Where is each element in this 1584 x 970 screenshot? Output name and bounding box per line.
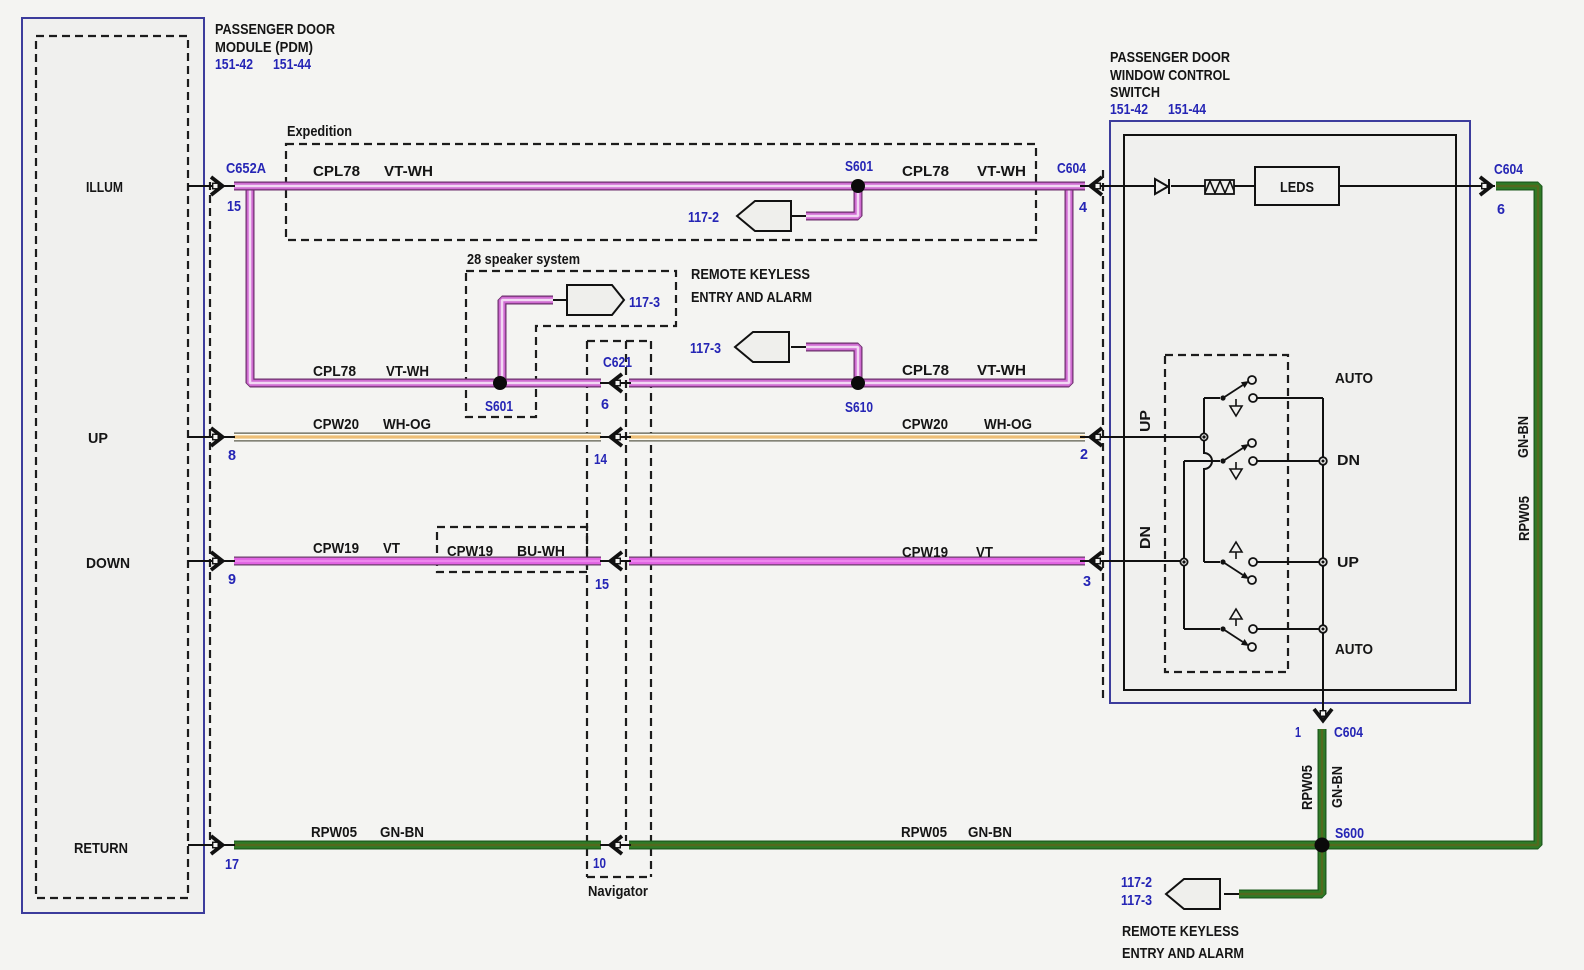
svg-text:RETURN: RETURN xyxy=(74,840,128,857)
svg-text:CPW20: CPW20 xyxy=(902,416,948,433)
svg-text:C604: C604 xyxy=(1057,160,1087,177)
svg-text:BU-WH: BU-WH xyxy=(517,543,565,560)
svg-text:WH-OG: WH-OG xyxy=(383,416,431,433)
svg-text:4: 4 xyxy=(1079,199,1088,216)
svg-text:151-44: 151-44 xyxy=(1168,101,1207,118)
svg-text:8: 8 xyxy=(228,447,236,464)
svg-text:GN-BN: GN-BN xyxy=(968,824,1012,841)
svg-text:CPL78: CPL78 xyxy=(313,163,360,180)
svg-text:117-3: 117-3 xyxy=(629,294,660,311)
svg-text:3: 3 xyxy=(1083,573,1091,590)
svg-text:VT: VT xyxy=(383,540,400,557)
svg-text:CPW19: CPW19 xyxy=(313,540,359,557)
svg-text:VT-WH: VT-WH xyxy=(384,163,433,180)
svg-text:GN-BN: GN-BN xyxy=(1515,416,1532,458)
svg-text:GN-BN: GN-BN xyxy=(1329,766,1346,808)
svg-text:UP: UP xyxy=(1137,410,1154,432)
svg-text:ILLUM: ILLUM xyxy=(86,179,123,196)
svg-text:14: 14 xyxy=(594,451,608,468)
svg-text:AUTO: AUTO xyxy=(1335,641,1373,658)
svg-text:CPW19: CPW19 xyxy=(902,544,948,561)
svg-text:15: 15 xyxy=(595,576,609,593)
svg-text:151-42: 151-42 xyxy=(215,56,253,73)
svg-text:S600: S600 xyxy=(1335,825,1364,842)
svg-text:28 speaker system: 28 speaker system xyxy=(467,251,580,268)
svg-text:15: 15 xyxy=(227,198,241,215)
svg-text:GN-BN: GN-BN xyxy=(380,824,424,841)
svg-text:151-44: 151-44 xyxy=(273,56,312,73)
svg-text:DN: DN xyxy=(1337,452,1360,469)
svg-text:WINDOW CONTROL: WINDOW CONTROL xyxy=(1110,67,1230,84)
svg-text:C604: C604 xyxy=(1334,724,1364,741)
svg-text:10: 10 xyxy=(593,855,606,872)
svg-text:17: 17 xyxy=(225,856,239,873)
svg-text:AUTO: AUTO xyxy=(1335,370,1373,387)
svg-text:SWITCH: SWITCH xyxy=(1110,84,1160,101)
svg-text:ENTRY AND ALARM: ENTRY AND ALARM xyxy=(691,289,812,306)
svg-text:RPW05: RPW05 xyxy=(1299,765,1316,810)
svg-text:WH-OG: WH-OG xyxy=(984,416,1032,433)
svg-text:REMOTE KEYLESS: REMOTE KEYLESS xyxy=(1122,923,1239,940)
svg-text:RPW05: RPW05 xyxy=(901,824,947,841)
svg-text:MODULE (PDM): MODULE (PDM) xyxy=(215,39,313,56)
svg-text:C652A: C652A xyxy=(226,160,266,177)
svg-text:UP: UP xyxy=(1337,554,1359,571)
svg-text:C604: C604 xyxy=(1494,161,1524,178)
svg-text:CPL78: CPL78 xyxy=(313,363,356,380)
svg-text:Expedition: Expedition xyxy=(287,123,352,140)
svg-text:CPL78: CPL78 xyxy=(902,362,949,379)
svg-text:117-2: 117-2 xyxy=(688,209,719,226)
svg-text:2: 2 xyxy=(1080,446,1088,463)
svg-text:VT-WH: VT-WH xyxy=(977,362,1026,379)
svg-text:117-3: 117-3 xyxy=(1121,892,1152,909)
svg-text:6: 6 xyxy=(601,396,609,413)
svg-text:C621: C621 xyxy=(603,354,632,371)
svg-text:RPW05: RPW05 xyxy=(1516,496,1533,541)
svg-text:UP: UP xyxy=(88,430,108,447)
svg-text:CPW20: CPW20 xyxy=(313,416,359,433)
svg-text:S601: S601 xyxy=(485,398,513,415)
svg-text:DN: DN xyxy=(1137,526,1154,549)
svg-text:CPL78: CPL78 xyxy=(902,163,949,180)
svg-text:117-3: 117-3 xyxy=(690,340,721,357)
svg-text:VT: VT xyxy=(976,544,993,561)
svg-text:Navigator: Navigator xyxy=(588,883,648,900)
svg-text:S610: S610 xyxy=(845,399,873,416)
svg-text:1: 1 xyxy=(1295,724,1301,741)
svg-text:6: 6 xyxy=(1497,201,1505,218)
svg-text:ENTRY AND ALARM: ENTRY AND ALARM xyxy=(1122,945,1244,962)
svg-text:9: 9 xyxy=(228,571,236,588)
svg-text:CPW19: CPW19 xyxy=(447,543,493,560)
svg-text:151-42: 151-42 xyxy=(1110,101,1148,118)
svg-text:REMOTE KEYLESS: REMOTE KEYLESS xyxy=(691,266,810,283)
svg-text:VT-WH: VT-WH xyxy=(386,363,429,380)
svg-text:DOWN: DOWN xyxy=(86,555,130,572)
svg-text:VT-WH: VT-WH xyxy=(977,163,1026,180)
svg-text:PASSENGER DOOR: PASSENGER DOOR xyxy=(215,21,335,38)
svg-text:RPW05: RPW05 xyxy=(311,824,357,841)
svg-text:117-2: 117-2 xyxy=(1121,874,1152,891)
svg-text:LEDS: LEDS xyxy=(1280,179,1314,196)
svg-text:S601: S601 xyxy=(845,158,873,175)
svg-text:PASSENGER DOOR: PASSENGER DOOR xyxy=(1110,49,1230,66)
